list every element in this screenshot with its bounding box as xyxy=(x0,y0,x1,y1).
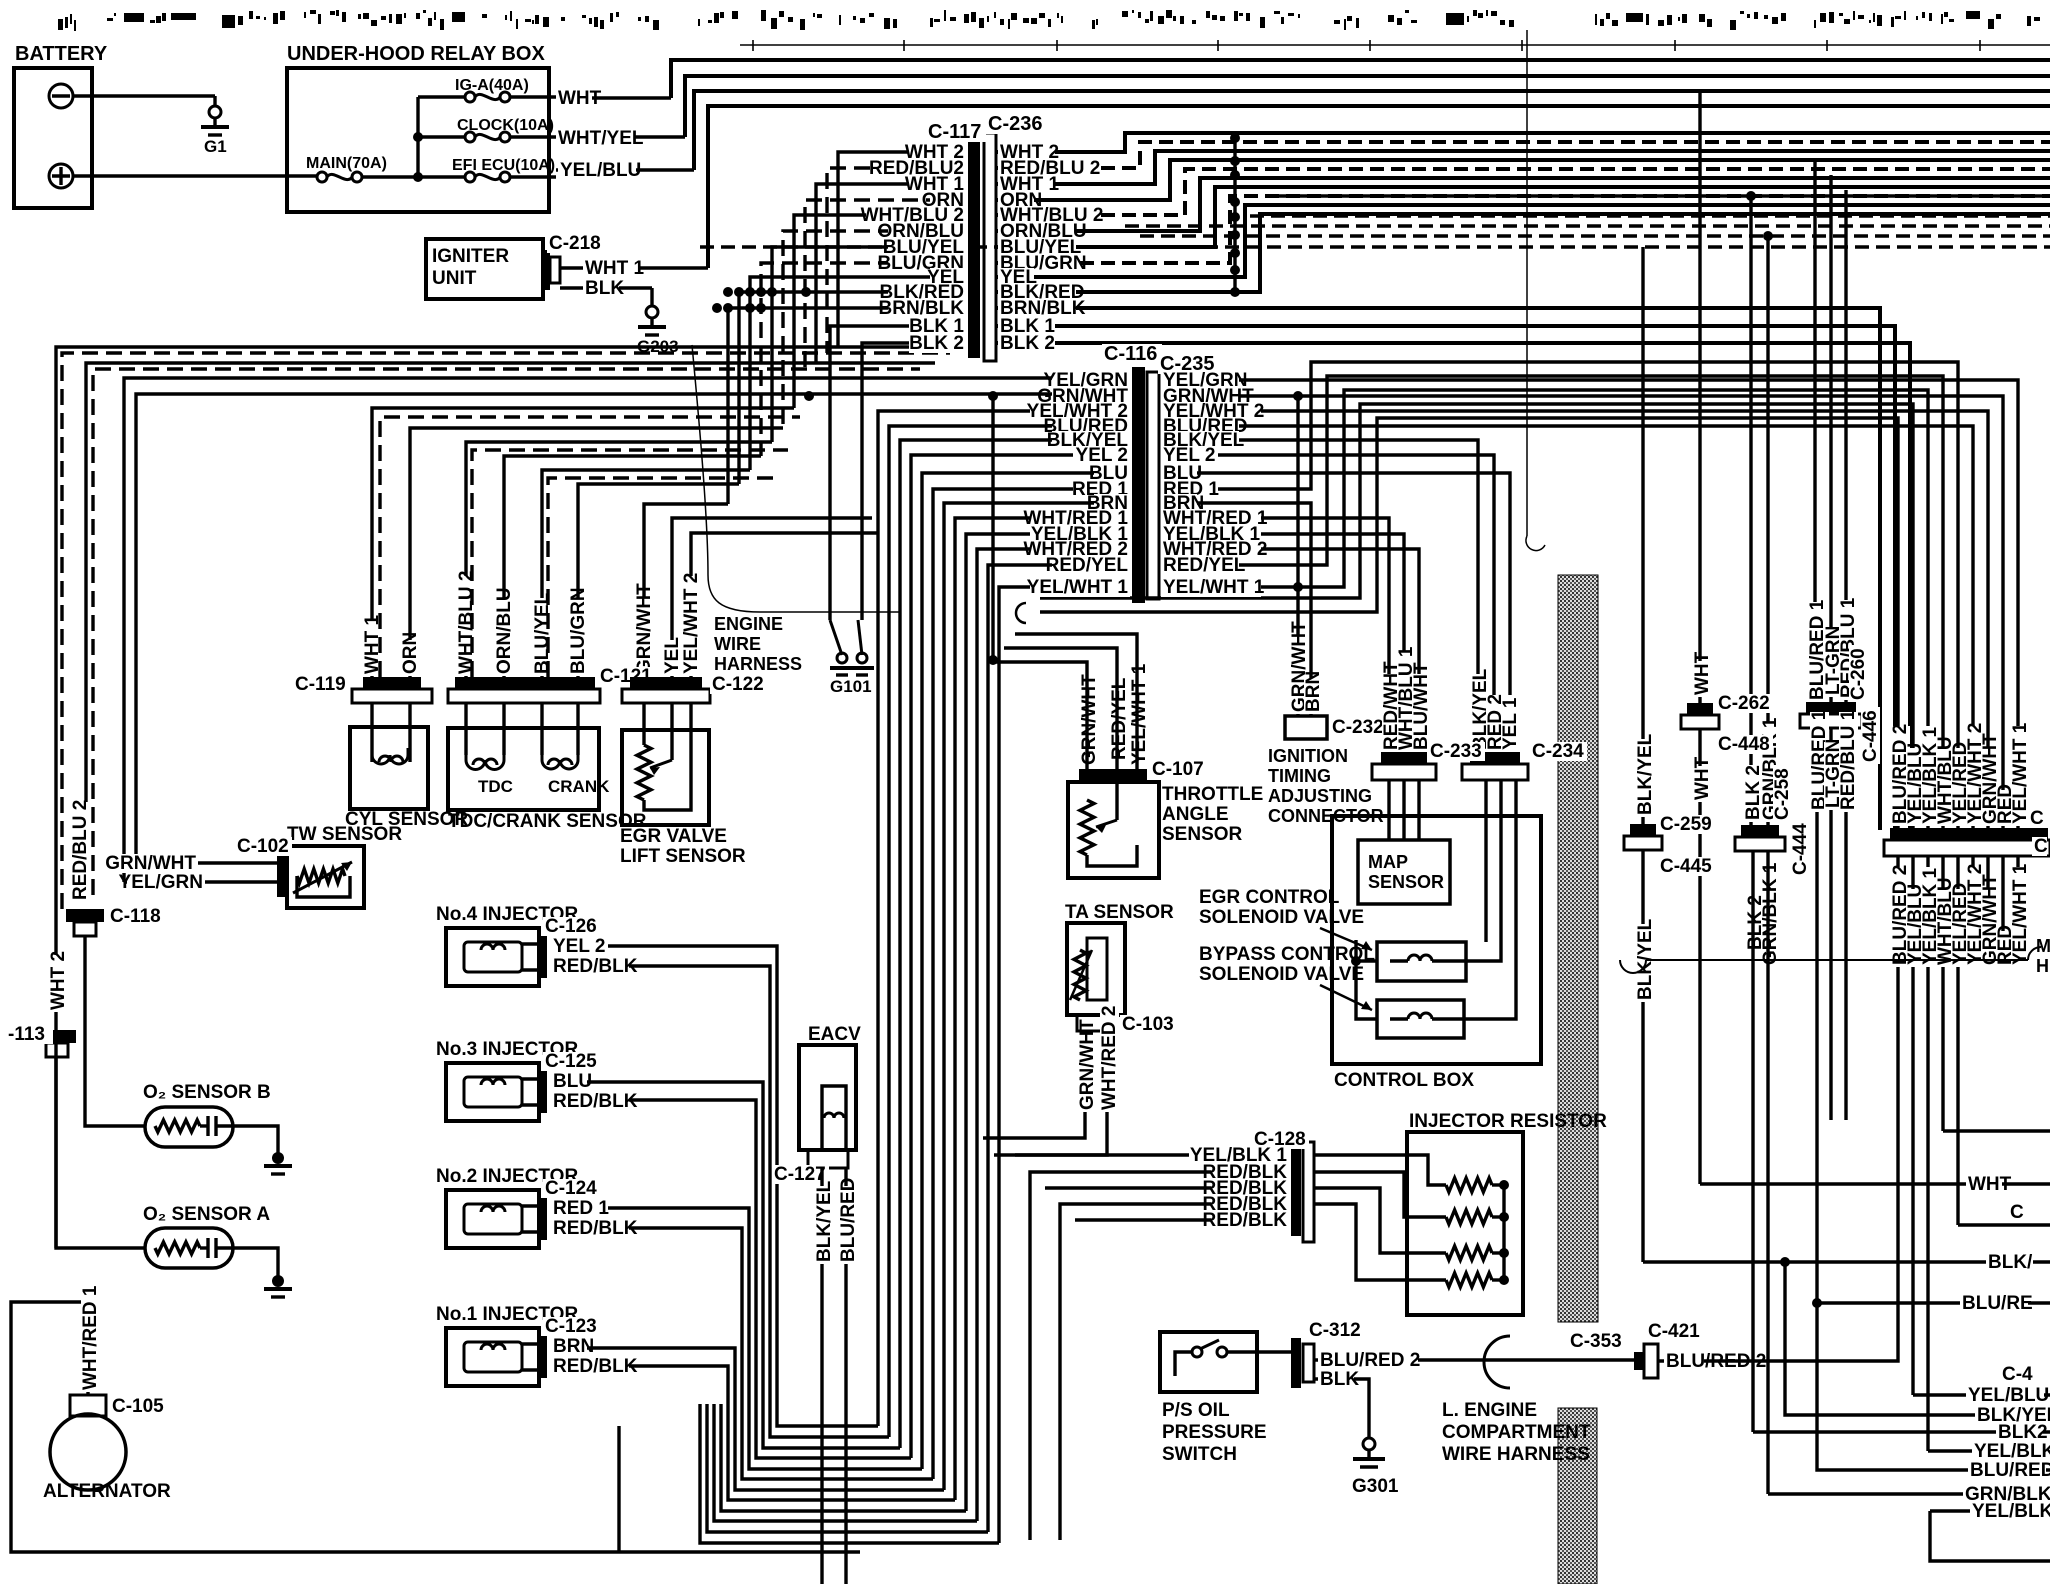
wire BLU/RED C-235 right xyxy=(1161,426,1973,828)
connector C-125 xyxy=(539,1071,547,1113)
ground G301 xyxy=(1363,1438,1375,1450)
bundle lower vertical wires xyxy=(617,1426,620,1552)
wire battery plus to relay box xyxy=(73,174,317,177)
svg-text:H: H xyxy=(2036,956,2049,976)
wire BLU/RED EACV xyxy=(844,1168,847,1584)
svg-text:CONTROL BOX: CONTROL BOX xyxy=(1334,1070,1474,1091)
svg-text:HARNESS: HARNESS xyxy=(714,654,802,674)
wire BLU/RED 1 right xyxy=(1813,161,1816,702)
wire YEL/WHT 2 C-235 right xyxy=(1161,411,1988,828)
bypass control solenoid valve xyxy=(1377,1000,1464,1038)
svg-text:BLK2: BLK2 xyxy=(1998,1422,2048,1443)
battery xyxy=(14,68,92,208)
harness break arc on wire xyxy=(1016,603,1026,623)
wire WHT/YEL top bus xyxy=(685,76,2050,137)
svg-text:RED/YEL: RED/YEL xyxy=(1046,555,1129,576)
svg-text:YEL/BLK2: YEL/BLK2 xyxy=(1972,1501,2050,1522)
dashed companion wires xyxy=(380,417,800,677)
svg-text:GRN/WHT: GRN/WHT xyxy=(105,853,196,874)
C-117 pin labels left xyxy=(909,143,966,162)
wire band top-right from C-236 xyxy=(996,133,2050,152)
svg-text:RED/BLK: RED/BLK xyxy=(1203,1210,1288,1231)
svg-text:C-124: C-124 xyxy=(545,1178,597,1199)
wire YEL/GRN C-116 left xyxy=(124,378,1130,882)
wire BLK to G301 xyxy=(1314,1379,1369,1438)
svg-text:M: M xyxy=(2036,936,2050,956)
connector C-118 xyxy=(66,909,104,922)
svg-text:C-116: C-116 xyxy=(1104,343,1157,365)
ground G101 xyxy=(830,620,842,655)
wire YEL/BLK2 bottom right xyxy=(1930,1509,2050,1512)
svg-text:C: C xyxy=(2010,1202,2024,1223)
wire YEL/WHT 1 right xyxy=(1161,390,1928,828)
svg-text:GRN/BLK 1: GRN/BLK 1 xyxy=(1760,862,1781,965)
svg-text:BLU/RED 2: BLU/RED 2 xyxy=(1320,1350,1420,1371)
C-116 pin labels left xyxy=(1052,371,1130,390)
connector C-258 C-444 xyxy=(1741,825,1779,837)
svg-text:YEL/WHT 1: YEL/WHT 1 xyxy=(2010,863,2031,965)
throttle angle sensor xyxy=(1068,782,1159,878)
svg-text:MAIN(70A): MAIN(70A) xyxy=(306,155,387,172)
svg-text:C-118: C-118 xyxy=(110,906,161,927)
svg-text:C-122: C-122 xyxy=(712,674,764,695)
svg-text:C-102: C-102 xyxy=(237,836,289,857)
svg-text:ADJUSTING: ADJUSTING xyxy=(1268,786,1372,806)
ground G203 xyxy=(650,288,653,306)
svg-text:TW SENSOR: TW SENSOR xyxy=(287,824,402,845)
wire RED/BLK xyxy=(551,1357,629,1376)
svg-text:BLK/YEL: BLK/YEL xyxy=(1635,733,1656,815)
svg-text:YEL/WHT 1: YEL/WHT 1 xyxy=(1163,577,1265,598)
svg-text:LIFT SENSOR: LIFT SENSOR xyxy=(620,846,746,867)
svg-text:C: C xyxy=(2030,808,2044,829)
wire WHT/RED 1 to C-233 xyxy=(1161,518,1389,752)
connector C-353 C-421 xyxy=(1568,1332,1625,1351)
svg-text:RED/YEL: RED/YEL xyxy=(1163,555,1246,576)
svg-text:YEL/BLK1: YEL/BLK1 xyxy=(1974,1441,2050,1462)
connector C-128 xyxy=(1291,1148,1301,1236)
wire RED/YEL right xyxy=(1161,376,1943,828)
wire WHT/RED 2 to C-233 xyxy=(1161,549,1419,752)
connector C-127 xyxy=(808,1150,848,1168)
under-hood relay box xyxy=(287,68,549,212)
svg-text:WHT/RED 1: WHT/RED 1 xyxy=(80,1285,101,1390)
harness wire bottom right xyxy=(1646,959,2028,961)
svg-text:WHT: WHT xyxy=(1692,651,1713,695)
svg-text:YEL/WHT 1: YEL/WHT 1 xyxy=(1027,577,1129,598)
map sensor xyxy=(1358,840,1450,904)
vertical junction wire x1235 xyxy=(1233,133,1236,292)
wire RED/BLK xyxy=(551,1219,629,1238)
bottom right partial box xyxy=(1930,1511,2050,1561)
connector C-121 xyxy=(455,677,595,689)
main harness arc xyxy=(1620,960,1646,973)
wire bundle C-117 left staircase xyxy=(838,152,966,347)
wire BLK/YEL right xyxy=(1641,247,1644,824)
svg-text:BLU/GRN: BLU/GRN xyxy=(568,587,589,674)
svg-text:C-126: C-126 xyxy=(545,916,597,937)
svg-text:WHT/YEL: WHT/YEL xyxy=(558,128,644,149)
svg-text:UNIT: UNIT xyxy=(432,268,477,289)
svg-text:RED/BLK: RED/BLK xyxy=(553,956,638,977)
connector C-126 xyxy=(539,936,547,978)
dashed wires top band xyxy=(1125,224,2050,227)
wire RED/YEL throttle xyxy=(1110,684,1129,762)
wire C-118 down to O2 sensor B xyxy=(85,936,145,1126)
svg-text:ANGLE: ANGLE xyxy=(1162,804,1229,825)
svg-text:C-218: C-218 xyxy=(549,233,601,254)
wire WHT below xyxy=(1698,729,1701,1184)
wire YEL/BLK1 bottom right xyxy=(1928,1449,2050,1452)
svg-text:L. ENGINE: L. ENGINE xyxy=(1442,1400,1537,1421)
svg-text:YEL 1: YEL 1 xyxy=(1500,697,1521,750)
svg-text:C-119: C-119 xyxy=(295,674,346,695)
svg-text:G1: G1 xyxy=(204,137,227,156)
connector C-233 xyxy=(1381,752,1427,764)
TA sensor wires to bundle xyxy=(983,1115,1085,1138)
engine wire harness label xyxy=(712,616,776,634)
svg-text:P/S OIL: P/S OIL xyxy=(1162,1400,1230,1421)
engine harness boundary curve xyxy=(692,345,900,612)
connector C-107 xyxy=(1079,769,1147,782)
wire WHT 2 label xyxy=(49,955,68,1012)
svg-text:EGR CONTROL: EGR CONTROL xyxy=(1199,887,1340,908)
wire RED 1 to No.2 injector xyxy=(558,1208,922,1469)
wire O2A to ground xyxy=(233,1248,278,1278)
wire GRN/WHT C-116 left xyxy=(136,394,1130,863)
svg-text:THROTTLE: THROTTLE xyxy=(1162,784,1263,805)
C-235 pin labels right xyxy=(1161,371,1239,390)
svg-text:BLK 2: BLK 2 xyxy=(909,333,964,354)
connector C-218 xyxy=(543,250,550,290)
svg-text:EGR VALVE: EGR VALVE xyxy=(620,826,727,847)
svg-text:WHT 1: WHT 1 xyxy=(585,258,645,279)
svg-text:O₂ SENSOR B: O₂ SENSOR B xyxy=(143,1082,271,1103)
svg-text:ORN: ORN xyxy=(400,632,421,674)
svg-text:WIRE: WIRE xyxy=(714,634,761,654)
svg-text:BLU/RED: BLU/RED xyxy=(1970,1460,2050,1481)
cyl sensor xyxy=(350,727,428,809)
wire O2B to ground xyxy=(233,1126,278,1155)
wire GRN/BLK 1 right xyxy=(1766,236,1769,825)
svg-text:C-262: C-262 xyxy=(1718,693,1770,714)
wire BLK/YEL to C-234 xyxy=(1161,440,1478,756)
wire YEL/GRN to TW xyxy=(124,880,277,883)
relay box junction xyxy=(416,97,419,177)
wire YEL/WHT 1 throttle xyxy=(1130,667,1149,767)
egr valve lift sensor xyxy=(622,730,709,825)
svg-text:SENSOR: SENSOR xyxy=(1162,824,1243,845)
svg-text:BLK: BLK xyxy=(1320,1369,1359,1390)
wire BLU xyxy=(551,1072,587,1091)
svg-text:WHT/RED 2: WHT/RED 2 xyxy=(1099,1006,1120,1111)
connector C-117 body xyxy=(968,140,980,358)
junction dots C-116 left xyxy=(988,391,998,401)
thin top rule with ticks xyxy=(740,44,2050,46)
svg-text:C-107: C-107 xyxy=(1152,759,1204,780)
wire YEL/BLU bottom right xyxy=(1913,1393,2050,1396)
thin harness boundary line xyxy=(1526,30,1528,536)
connector ref labels redraw xyxy=(1428,742,1485,761)
wire BLK 2 right xyxy=(1749,196,1752,825)
left page edge loops xyxy=(56,347,966,1248)
wire BLK from igniter xyxy=(560,286,652,289)
svg-text:UNDER-HOOD RELAY BOX: UNDER-HOOD RELAY BOX xyxy=(287,43,545,65)
connector C-119 xyxy=(363,677,421,689)
wires below C-444 labels xyxy=(1746,895,1765,952)
grey harness bar upper xyxy=(1558,575,1598,1322)
svg-text:C-4: C-4 xyxy=(2002,1364,2033,1385)
svg-text:O₂ SENSOR A: O₂ SENSOR A xyxy=(143,1204,270,1225)
svg-text:BYPASS CONTROL: BYPASS CONTROL xyxy=(1199,944,1375,965)
svg-text:C-312: C-312 xyxy=(1309,1320,1361,1341)
throttle wires up to junctions xyxy=(993,662,1087,769)
svg-text:TDC: TDC xyxy=(478,777,513,796)
svg-text:-113: -113 xyxy=(8,1024,45,1045)
tdc/crank sensor xyxy=(448,728,599,810)
svg-text:RED/BLK: RED/BLK xyxy=(553,1356,638,1377)
wire BRN right to C-232 xyxy=(1161,503,1311,716)
svg-text:SOLENOID VALVE: SOLENOID VALVE xyxy=(1199,964,1364,985)
svg-text:C-445: C-445 xyxy=(1660,856,1712,877)
svg-text:C-448: C-448 xyxy=(1718,734,1770,755)
wire RED/BLK No.4 xyxy=(558,966,889,1437)
svg-text:C-236: C-236 xyxy=(988,113,1042,135)
svg-text:BLU/YEL: BLU/YEL xyxy=(532,592,553,674)
connector C-102 xyxy=(277,855,287,897)
wire WHT bottom right xyxy=(1700,1182,2050,1185)
svg-text:RED/BLK: RED/BLK xyxy=(553,1218,638,1239)
junction dots on BLK/RED row xyxy=(723,287,733,297)
wire RED/BLU 2 label xyxy=(71,802,90,902)
connector C-262 C-448 xyxy=(1687,703,1713,715)
wire BRN xyxy=(551,1337,587,1356)
wire BLU to No.3 injector xyxy=(558,1082,900,1448)
svg-text:C-258: C-258 xyxy=(1772,768,1793,820)
svg-text:MAP: MAP xyxy=(1368,852,1408,872)
svg-text:ENGINE: ENGINE xyxy=(714,614,783,634)
svg-text:WIRE HARNESS: WIRE HARNESS xyxy=(1442,1444,1590,1465)
bottom right verticals xyxy=(1751,851,1754,1432)
connector C-234 xyxy=(1470,752,1520,764)
svg-text:C: C xyxy=(2034,836,2048,857)
egr control solenoid valve xyxy=(1377,942,1466,981)
svg-text:YEL/GRN: YEL/GRN xyxy=(119,872,203,893)
svg-text:YEL: YEL xyxy=(662,637,683,674)
svg-text:WHT/BLU 2: WHT/BLU 2 xyxy=(456,571,477,674)
scan noise top xyxy=(58,19,63,30)
svg-text:C-232: C-232 xyxy=(1332,717,1384,738)
sensor wires staircase xyxy=(372,408,794,677)
wire YEL/BLU from EFI ECU xyxy=(556,168,694,171)
svg-text:CRANK: CRANK xyxy=(548,777,610,796)
wire BLU/RED bottom right xyxy=(1812,1298,1822,1308)
connector C-103 xyxy=(1077,1015,1117,1031)
grey harness bar lower xyxy=(1558,1408,1597,1584)
wire RED/BLK xyxy=(551,957,629,976)
svg-text:ALTERNATOR: ALTERNATOR xyxy=(43,1481,171,1502)
svg-text:BLU: BLU xyxy=(553,1071,592,1092)
wire WHT/YEL from CLOCK xyxy=(556,135,685,138)
wire GRN/WHT to TW xyxy=(136,861,277,864)
svg-text:TIMING: TIMING xyxy=(1268,766,1331,786)
svg-text:BLU/WHT: BLU/WHT xyxy=(1411,662,1432,750)
svg-text:YEL/WHT 1: YEL/WHT 1 xyxy=(1129,663,1150,765)
svg-text:YEL/BLU: YEL/BLU xyxy=(560,160,641,181)
svg-text:C-446: C-446 xyxy=(1860,710,1881,762)
junction dots on BRN/BLK row xyxy=(712,303,722,313)
connector C-105 xyxy=(70,1395,106,1416)
wire to O2 sensor A xyxy=(56,1056,145,1248)
svg-text:C-234: C-234 xyxy=(1532,741,1584,762)
vertical GRN/WHT to C-232 xyxy=(1296,396,1299,716)
connector C-116 body xyxy=(1132,367,1145,603)
svg-text:BLK/YEL: BLK/YEL xyxy=(814,1180,835,1262)
svg-text:RED/BLU 2: RED/BLU 2 xyxy=(70,800,91,900)
svg-text:C-260: C-260 xyxy=(1848,648,1869,700)
svg-text:IGNITION: IGNITION xyxy=(1268,746,1348,766)
wire BLU/RED 2 up to connector xyxy=(1704,1348,1898,1361)
svg-text:IGNITER: IGNITER xyxy=(432,246,509,267)
svg-text:RED/BLK: RED/BLK xyxy=(553,1091,638,1112)
wire YEL/BLU top bus xyxy=(694,91,2050,170)
wire battery minus to G1 xyxy=(73,94,215,97)
wire RED 1 xyxy=(551,1199,608,1218)
wire BLK/YEL EACV xyxy=(820,1168,823,1584)
connector C-123 xyxy=(539,1336,547,1378)
svg-text:G301: G301 xyxy=(1352,1476,1399,1497)
wire YEL/RED lower corner xyxy=(1958,1223,2050,1226)
wire WHT/BLU lower corner xyxy=(1943,1129,2050,1132)
wire LT-GRN right xyxy=(1829,175,1832,702)
svg-text:COMPARTMENT: COMPARTMENT xyxy=(1442,1422,1591,1443)
svg-text:ORN/BLU: ORN/BLU xyxy=(494,587,515,674)
svg-text:GRN/WHT: GRN/WHT xyxy=(1079,674,1100,765)
svg-text:BRN: BRN xyxy=(1303,671,1324,712)
outer bottom U loops xyxy=(721,1404,966,1511)
central vertical bundle from C-116 xyxy=(878,411,1130,1426)
svg-text:YEL/WHT 1: YEL/WHT 1 xyxy=(2010,722,2031,824)
wire BLU/RED lower xyxy=(1817,1303,2050,1470)
wire BLU/RED 2 xyxy=(1314,1358,1634,1361)
C-128 wires xyxy=(1015,1153,1289,1156)
svg-text:BLU/RE: BLU/RE xyxy=(1962,1293,2033,1314)
solenoid feed wires xyxy=(1484,780,1487,942)
svg-text:YEL 2: YEL 2 xyxy=(553,936,605,957)
big right connector xyxy=(1890,828,2048,840)
wire YEL 2 to No.4 injector xyxy=(558,946,878,1426)
svg-text:C-444: C-444 xyxy=(1790,823,1811,875)
svg-text:TDC/CRANK SENSOR: TDC/CRANK SENSOR xyxy=(448,811,647,832)
svg-text:SOLENOID VALVE: SOLENOID VALVE xyxy=(1199,907,1364,928)
svg-text:WHT 2: WHT 2 xyxy=(48,951,69,1010)
svg-text:GRN/WHT: GRN/WHT xyxy=(1077,1019,1098,1110)
wires below C-446 xyxy=(1815,728,1818,1303)
svg-text:BLK: BLK xyxy=(585,278,624,299)
wire RED/BLK xyxy=(551,1092,629,1111)
wire RED/BLU 1 right xyxy=(1844,190,1847,702)
svg-text:C-233: C-233 xyxy=(1430,741,1482,762)
ignition timing adjusting connector C-232 xyxy=(1285,716,1327,739)
svg-text:INJECTOR RESISTOR: INJECTOR RESISTOR xyxy=(1409,1111,1607,1132)
svg-text:C-117: C-117 xyxy=(928,121,981,143)
wire BLU right xyxy=(1161,473,1510,756)
wire WHT top bus xyxy=(671,60,2050,98)
connector C-312 xyxy=(1291,1338,1301,1388)
harness break arc xyxy=(1484,1336,1510,1388)
svg-text:BRN: BRN xyxy=(553,1336,594,1357)
wire YEL/BLK 1 to C-233 xyxy=(1161,534,1404,752)
svg-text:C-125: C-125 xyxy=(545,1051,597,1072)
wire GRN/WHT TA xyxy=(1083,1031,1086,1115)
ground G1 xyxy=(213,96,216,106)
svg-text:WHT: WHT xyxy=(1692,756,1713,800)
svg-text:EACV: EACV xyxy=(808,1024,861,1045)
wire BLK bottom right xyxy=(1643,1260,2050,1263)
wire WHT/RED 1 label xyxy=(81,1292,100,1392)
wire RED/BLK No.2 xyxy=(558,1228,933,1479)
svg-text:BLK/: BLK/ xyxy=(1988,1252,2033,1273)
connector C-260 C-446 xyxy=(1806,702,1856,714)
svg-text:BLU/RED: BLU/RED xyxy=(838,1178,859,1262)
wire RED 1 right xyxy=(1161,362,1958,828)
wire YEL/GRN C-235 right xyxy=(1161,380,2018,828)
big connector wire labels above xyxy=(1891,726,1910,826)
svg-text:C-353: C-353 xyxy=(1570,1331,1622,1352)
svg-text:C-105: C-105 xyxy=(112,1396,164,1417)
connector C-124 xyxy=(539,1198,547,1240)
resistor wires inside xyxy=(1446,1178,1492,1192)
wire GRN/WHT throttle xyxy=(1080,689,1099,767)
svg-text:SENSOR: SENSOR xyxy=(1368,872,1444,892)
wire GRN/BLK1 bottom right xyxy=(1768,1492,2050,1495)
p/s oil pressure switch xyxy=(1160,1332,1257,1392)
wire BLU/RED 2 right xyxy=(1658,1359,1704,1362)
svg-text:BATTERY: BATTERY xyxy=(15,43,108,65)
svg-text:C-123: C-123 xyxy=(545,1316,597,1337)
svg-text:GRN/WHT: GRN/WHT xyxy=(634,583,655,674)
svg-text:RED/BLU 1: RED/BLU 1 xyxy=(1838,709,1859,810)
alternator loop wire xyxy=(11,1302,860,1552)
svg-text:C-421: C-421 xyxy=(1648,1321,1700,1342)
svg-text:TA SENSOR: TA SENSOR xyxy=(1065,902,1174,923)
svg-text:YEL/WHT 2: YEL/WHT 2 xyxy=(681,573,702,674)
svg-text:SWITCH: SWITCH xyxy=(1162,1444,1237,1465)
alternator xyxy=(50,1414,126,1490)
connector C-235 body xyxy=(1147,372,1159,599)
wire WHT igniter top bus xyxy=(708,106,2050,268)
wire BRN to No.1 injector xyxy=(558,1348,944,1490)
wire BLK2 bottom right xyxy=(1753,1430,2050,1433)
wire YEL 2 right to C-234 xyxy=(1161,455,1494,756)
svg-text:YEL/BLU: YEL/BLU xyxy=(1968,1385,2049,1406)
svg-text:C-103: C-103 xyxy=(1122,1014,1174,1035)
igniter unit xyxy=(426,239,543,299)
wire WHT/RED 2 TA xyxy=(1105,1031,1108,1115)
map sensor wires xyxy=(1387,780,1390,840)
wire WHT 1 from igniter xyxy=(560,266,708,269)
svg-text:PRESSURE: PRESSURE xyxy=(1162,1422,1267,1443)
connector C-259 C-445 xyxy=(1630,824,1656,836)
big connector wires below xyxy=(1896,856,1899,1348)
svg-text:RED/YEL: RED/YEL xyxy=(1109,677,1130,760)
connector C-236 body xyxy=(984,133,996,361)
wire YEL 2 xyxy=(551,937,608,956)
connector C-122 xyxy=(630,677,702,689)
C-236 pin labels right xyxy=(998,143,1055,162)
wire BLK/YEL branch xyxy=(1785,1262,2050,1415)
svg-text:G101: G101 xyxy=(830,677,872,696)
